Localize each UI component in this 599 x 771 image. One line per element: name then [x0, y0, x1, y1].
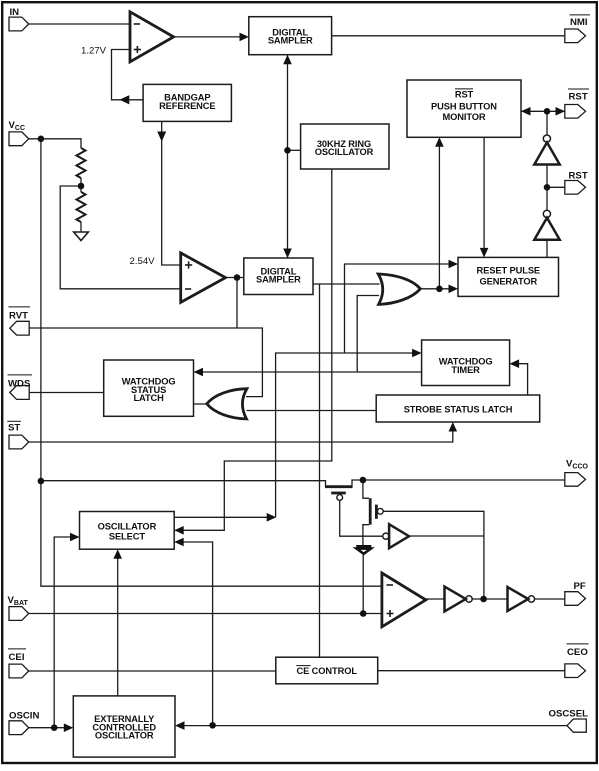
svg-text:GENERATOR: GENERATOR [479, 276, 537, 286]
wire Q1 gate down to inverter U9 output [340, 501, 383, 537]
wire resistor tap to comparator U4 minus input [60, 186, 181, 289]
svg-text:RESET PULSE: RESET PULSE [477, 265, 540, 275]
pin OSCSEL (points left) [567, 719, 586, 732]
wire OR gate G1 output node up to RST push button monitor bottom [438, 147, 440, 289]
pin VCCO [565, 473, 586, 487]
wire oscillator select 2nd input from OSCSEL net [176, 542, 213, 725]
zener diode D1 [356, 545, 371, 548]
svg-text:SELECT: SELECT [109, 532, 145, 542]
arrowhead bandgap output (points left) [120, 95, 130, 104]
wire RST push button monitor to RST-bar pin (bidirectional) [521, 110, 565, 112]
box strobe status latch [376, 395, 540, 422]
junction dot VCC pin node [38, 136, 45, 143]
svg-text:OSCILLATOR: OSCILLATOR [98, 522, 157, 532]
svg-text:IN: IN [10, 7, 20, 18]
wire CEI pin to CE control [29, 670, 276, 672]
wire ST pin to strobe status latch bottom [29, 431, 453, 442]
arrowhead into watchdog timer right input (points left) [510, 359, 519, 368]
svg-text:LATCH: LATCH [133, 393, 164, 403]
pin RST [565, 181, 586, 195]
wire Q2 gate line to PF node vertical [383, 511, 484, 598]
svg-text:OSCSEL: OSCSEL [549, 709, 589, 720]
transistor Q1 (pass PMOS on VCCO line) [325, 485, 353, 488]
wire OSCSEL pin to externally controlled oscillator (arrow left) [184, 725, 567, 727]
arrowhead left into RST push button monitor right edge [521, 107, 531, 116]
box oscillator select [80, 512, 175, 550]
svg-text:PUSH BUTTON: PUSH BUTTON [431, 101, 497, 111]
pin CEI [9, 664, 29, 678]
pin IN [9, 17, 29, 31]
svg-text:TIMER: TIMER [451, 365, 480, 375]
wire digital sampler U2 output to OR gate G1 upper input [313, 283, 380, 285]
pin WDS (output, points left) [10, 386, 29, 400]
wire RST push button monitor bottom to reset pulse generator top [483, 137, 485, 248]
svg-text:RST: RST [569, 92, 588, 103]
wire OR gate G1 lower input from watchdog line [357, 296, 379, 372]
wire OSCIN branch up to oscillator select (arrow right) [54, 537, 71, 728]
op-amp U7 (power-fail comparator) [382, 573, 426, 627]
wire VCCO node down to transistor Q2 source [363, 480, 369, 498]
inverter U11 (PF chain second) [508, 587, 529, 611]
wire VCC pin to resistor divider [29, 139, 81, 148]
arrowhead into oscillator select left (points right) [70, 533, 80, 542]
inverter U9 (points left, bubble on left) [383, 533, 389, 539]
pin VCC [9, 132, 29, 146]
wire OR gate G3 output to watchdog status latch [194, 403, 207, 405]
wire bandgap bottom output down to comparator U4 plus input [162, 121, 181, 265]
svg-text:RST: RST [455, 90, 474, 100]
arrowhead bandgap bottom output (points down) [157, 132, 166, 142]
arrowhead up into RST push button monitor bottom [435, 137, 444, 147]
inverter U10 (PF chain first) [445, 587, 466, 612]
ground arrow (hollow) below divider [74, 232, 89, 241]
arrowhead up into digital sampler U1 bottom [283, 55, 292, 64]
wire U2 output branch down to CE control [319, 284, 321, 657]
arrowhead into watchdog status latch right input (points left) [194, 368, 204, 377]
box watchdog status latch [104, 360, 194, 416]
box CE control [276, 657, 378, 684]
arrowhead into oscillator select right upper (points left) [174, 526, 184, 535]
junction dot RST node [544, 184, 551, 191]
wire OR gate G1 output to reset pulse generator [420, 288, 449, 290]
svg-text:OSCILLATOR: OSCILLATOR [315, 147, 374, 157]
wire RST-bar node down to inverter U5 [546, 111, 548, 135]
OR gate G3 (points left, to watchdog status latch) [207, 389, 247, 419]
wire PF comparator U7 output to inverter U10 [426, 598, 445, 600]
arrowhead into externally controlled oscillator right (points left) [175, 721, 185, 730]
wire inverter U6 output down to reset pulse generator [546, 240, 548, 258]
wire pass transistor Q1 to VCCO pin [352, 480, 565, 487]
arrowhead into watchdog timer left input [412, 349, 422, 358]
resistor R1 [77, 148, 86, 178]
arrowhead into reset pulse generator lower-left input [449, 285, 459, 294]
box reset pulse generator [458, 257, 559, 296]
pin PF [565, 592, 586, 606]
svg-text:OSCILLATOR: OSCILLATOR [95, 730, 154, 740]
junction dot OR gate G1 output node [436, 286, 443, 293]
wire zener D1 to VBAT line node [362, 554, 364, 614]
wire VCC rail vertical [41, 139, 382, 586]
svg-text:MONITOR: MONITOR [442, 112, 485, 122]
wire transistor Q2 drain down to zener D1 [363, 525, 369, 545]
arrowhead into oscillator select right lower (points left) [174, 538, 184, 547]
resistor R2 [77, 192, 86, 222]
svg-text:STROBE STATUS LATCH: STROBE STATUS LATCH [404, 404, 513, 414]
arrowhead down into reset pulse generator top [480, 248, 489, 258]
inverter U6 (lower, bubble on top) [543, 210, 550, 217]
junction dot RST-bar node [544, 108, 551, 115]
transistor Q2 (PMOS, vertical) [369, 498, 372, 525]
wire bandgap to comparator U3 plus input [112, 50, 144, 100]
wire watchdog timer to watchdog status latch (arrow left) [196, 371, 422, 373]
arrowhead into externally controlled oscillator left (points right) [64, 723, 74, 732]
wire digital sampler U1 output to NMI pin [332, 35, 565, 37]
svg-text:1.27V: 1.27V [81, 46, 107, 57]
wire CE control to CEO pin [378, 670, 565, 672]
arrowhead comparator U3 output into U1 [240, 33, 249, 42]
wire strobe status latch left output to OR gate G3 [247, 410, 377, 412]
svg-text:SAMPLER: SAMPLER [268, 36, 313, 46]
junction dot OSCSEL node [209, 722, 216, 729]
box digital sampler U2 (middle) [244, 258, 313, 295]
box bandgap reference [143, 84, 231, 121]
junction dot 30khz oscillator stub [284, 147, 291, 154]
wire WDS pin to watchdog status latch [29, 392, 104, 394]
svg-text:RVT: RVT [9, 311, 28, 322]
junction dot VCC rail VCCO branch [38, 478, 45, 485]
arrowhead right into RST-bar pin [556, 107, 566, 116]
wire IN pin to comparator U3 minus input [29, 23, 130, 25]
junction dot PF inverter output node [480, 596, 487, 603]
svg-text:CEI: CEI [9, 652, 25, 663]
op-amp U3 (1.27V comparator) [130, 12, 174, 62]
wire clock branch up to reset pulse generator [345, 264, 450, 353]
junction dot OSCIN node [51, 724, 58, 731]
svg-text:CE CONTROL: CE CONTROL [296, 666, 357, 676]
box RST push button monitor [407, 80, 521, 137]
wire comparator U4 output to digital sampler U2 [226, 277, 244, 279]
wire inverter U9 input line [409, 535, 484, 537]
svg-text:PF: PF [574, 581, 586, 592]
box 30khz ring oscillator [301, 124, 389, 169]
wire comparator U3 output to digital sampler U1 [174, 36, 241, 38]
arrowhead into reset pulse generator upper-left input [449, 260, 459, 269]
arrowhead into oscillator select bottom (points up) [113, 549, 122, 559]
wire RST node to RST pin [547, 186, 565, 188]
wire strobe status latch top to watchdog timer right (arrow left) [519, 364, 528, 395]
inverter U5 (upper, bubble on top) [543, 135, 550, 142]
OR gate G1 (points right) [378, 274, 420, 304]
wire RVT pin line to OR gate G2 input [29, 328, 262, 397]
arrowhead into strobe status latch bottom (points up) [449, 422, 458, 432]
pin RST-bar [565, 105, 586, 119]
svg-text:CEO: CEO [567, 647, 588, 658]
pin RVT (output, points left) [10, 321, 29, 335]
wire 30khz oscillator bottom to oscillator select [176, 169, 332, 530]
svg-text:SAMPLER: SAMPLER [256, 275, 301, 285]
junction dot zener D1 at VBAT line [360, 610, 367, 617]
svg-text:RST: RST [569, 171, 588, 182]
svg-text:OSCIN: OSCIN [9, 711, 39, 722]
wire VBAT pin to PF comparator U7 plus input [29, 613, 382, 615]
box externally controlled oscillator [73, 696, 175, 757]
wire inverter U5 output to RST node [546, 165, 548, 211]
svg-text:REFERENCE: REFERENCE [159, 101, 215, 111]
wire 30khz oscillator left stub [288, 149, 301, 151]
pin VBAT [9, 607, 29, 621]
arrowhead down into digital sampler U2 top [283, 249, 292, 259]
junction dot comparator U4 output node A [234, 274, 241, 281]
box digital sampler U1 (top) [249, 17, 332, 55]
box watchdog timer [422, 340, 510, 386]
wire clock net from oscillator select to watchdog timer [174, 353, 412, 517]
junction dot VCCO line at Q2 [360, 477, 367, 484]
wire OSCIN pin to externally controlled oscillator [29, 727, 65, 729]
wire between digital samplers U1-U2 [287, 55, 289, 258]
wire inverter U10 output to inverter U11 [472, 598, 507, 600]
op-amp U4 (2.54V comparator) [181, 253, 226, 303]
wire inverter U11 output to PF pin [535, 598, 565, 600]
pin NMI [565, 29, 586, 43]
svg-text:WDS: WDS [8, 379, 31, 390]
wire VCCO line from VCC rail to pass transistor Q1 [41, 481, 326, 487]
pin ST [9, 435, 29, 449]
pin CEO [565, 664, 586, 678]
wire oscillator select bottom from externally controlled oscillator [117, 559, 119, 696]
wire node A down from U4 output to RVT line [236, 278, 238, 329]
junction dot resistor divider tap [78, 183, 85, 190]
arrowhead clock net into vertical (points right) [267, 513, 277, 522]
svg-text:ST: ST [8, 423, 20, 434]
pin OSCIN [9, 721, 29, 735]
svg-text:NMI: NMI [570, 17, 588, 28]
svg-text:2.54V: 2.54V [130, 256, 156, 267]
